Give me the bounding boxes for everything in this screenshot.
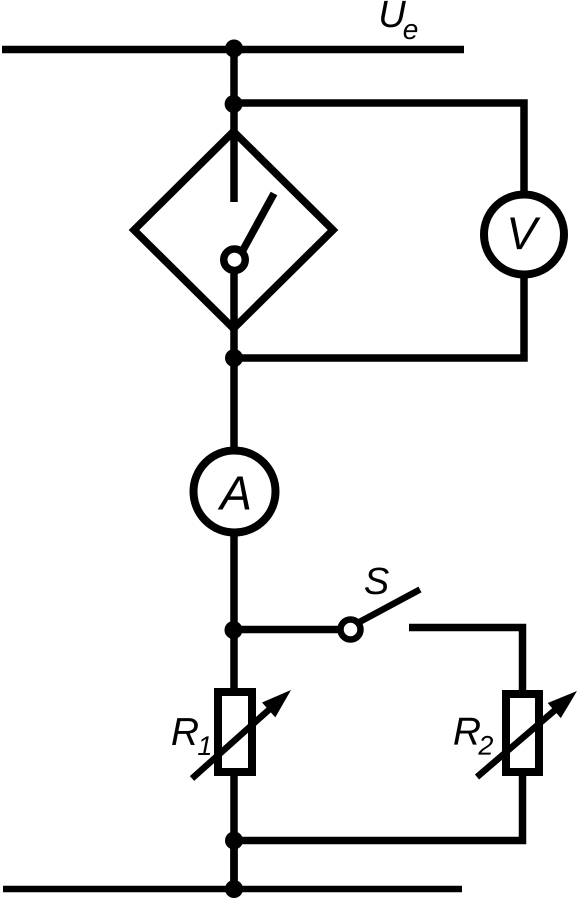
svg-text:1: 1: [197, 731, 212, 761]
svg-text:V: V: [506, 207, 541, 259]
svg-text:S: S: [364, 561, 389, 603]
svg-text:e: e: [403, 14, 419, 45]
svg-text:2: 2: [477, 731, 493, 761]
svg-text:R: R: [171, 711, 199, 754]
svg-text:R: R: [453, 711, 481, 754]
svg-text:A: A: [217, 467, 252, 520]
